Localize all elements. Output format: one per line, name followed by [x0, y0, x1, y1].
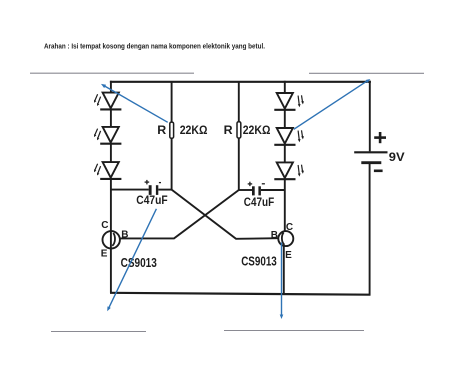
- svg-text:22KΩ: 22KΩ: [243, 123, 271, 137]
- svg-text:R: R: [224, 123, 233, 137]
- svg-text:9V: 9V: [389, 150, 406, 164]
- battery BT1 positive plate: [354, 151, 387, 153]
- LED D4 (top right): [274, 93, 304, 110]
- wire: right collector column: [284, 179, 286, 231]
- capacitor C1 polarity -: [159, 182, 161, 184]
- pointer arrow 1 (R to top-left blank): [101, 84, 168, 122]
- svg-text:C47uF: C47uF: [136, 193, 167, 207]
- wire: cross-coupling diagonal from R2/C2 node to Q1 base: [120, 190, 239, 238]
- svg-text:E: E: [285, 250, 292, 261]
- svg-text:CS9013: CS9013: [241, 254, 277, 268]
- battery BT1 negative plate: [361, 161, 381, 164]
- battery BT1 wire bottom: [369, 164, 371, 295]
- capacitor C1 plates: [149, 185, 152, 195]
- capacitor C2 polarity +: [248, 182, 253, 186]
- wire: right column top segment: [284, 81, 286, 94]
- pointer arrow 2 (LED to top-right blank): [294, 79, 371, 129]
- resistor R1 body: [170, 122, 174, 138]
- capacitor C1 wire left: [111, 189, 149, 191]
- pointer arrow 3 (C47uF to bottom-left blank): [107, 209, 156, 311]
- svg-text:C: C: [286, 222, 293, 233]
- svg-text:C47uF: C47uF: [244, 195, 274, 209]
- transistor Q2: [278, 231, 293, 246]
- LED D2 (middle left): [94, 127, 121, 144]
- wire: bottom rail: [110, 293, 371, 295]
- wire: left column down to transistor and emitter run: [110, 179, 112, 293]
- svg-text:CS9013: CS9013: [121, 256, 157, 270]
- wire: left column top segment: [110, 81, 112, 93]
- battery + sign: [374, 132, 386, 143]
- transistor Q1: [103, 231, 120, 248]
- capacitor C2 plates: [252, 186, 255, 195]
- resistor R2 lead top: [238, 82, 240, 122]
- capacitor C1 polarity +: [145, 180, 150, 185]
- capacitor C1 wire right: [158, 189, 172, 191]
- wire: [284, 145, 286, 163]
- blank line bottom-left: [51, 331, 146, 333]
- wire: Q2 emitter: [283, 245, 285, 295]
- svg-text:E: E: [101, 248, 108, 259]
- wire: [110, 109, 112, 127]
- blank line top-left: [30, 72, 194, 74]
- wire: top rail: [110, 81, 371, 83]
- svg-text:Arahan : Isi tempat kosong den: Arahan : Isi tempat kosong dengan nama k…: [44, 41, 265, 50]
- LED D3 (bottom left): [94, 162, 121, 179]
- LED D6 (bottom right): [274, 162, 304, 179]
- capacitor C2 wire left: [239, 189, 252, 191]
- battery BT1 wire top: [369, 81, 371, 152]
- wire: [284, 110, 286, 129]
- wire: cross-coupling diagonal from R1/C1 node to Q2 base: [172, 190, 279, 239]
- resistor R2 lead bottom: [238, 138, 240, 190]
- battery - sign: [374, 170, 383, 173]
- resistor R1 lead top: [171, 82, 173, 122]
- wire: [110, 144, 112, 163]
- svg-text:R: R: [157, 123, 166, 137]
- svg-text:B: B: [121, 229, 128, 240]
- svg-text:22KΩ: 22KΩ: [180, 123, 208, 137]
- pointer arrow 4 (Q2 to bottom-right blank): [280, 243, 284, 320]
- blank line bottom-right: [224, 330, 364, 332]
- LED D5 (middle right): [274, 128, 304, 145]
- svg-text:B: B: [271, 230, 278, 241]
- LED D1 (top left): [94, 93, 121, 110]
- capacitor C2 polarity -: [262, 183, 265, 185]
- svg-text:C: C: [101, 220, 108, 231]
- blank line top-right: [309, 72, 424, 74]
- resistor R1 lead bottom: [171, 138, 173, 190]
- resistor R2 body: [237, 122, 241, 138]
- capacitor C2 wire right: [261, 189, 285, 191]
